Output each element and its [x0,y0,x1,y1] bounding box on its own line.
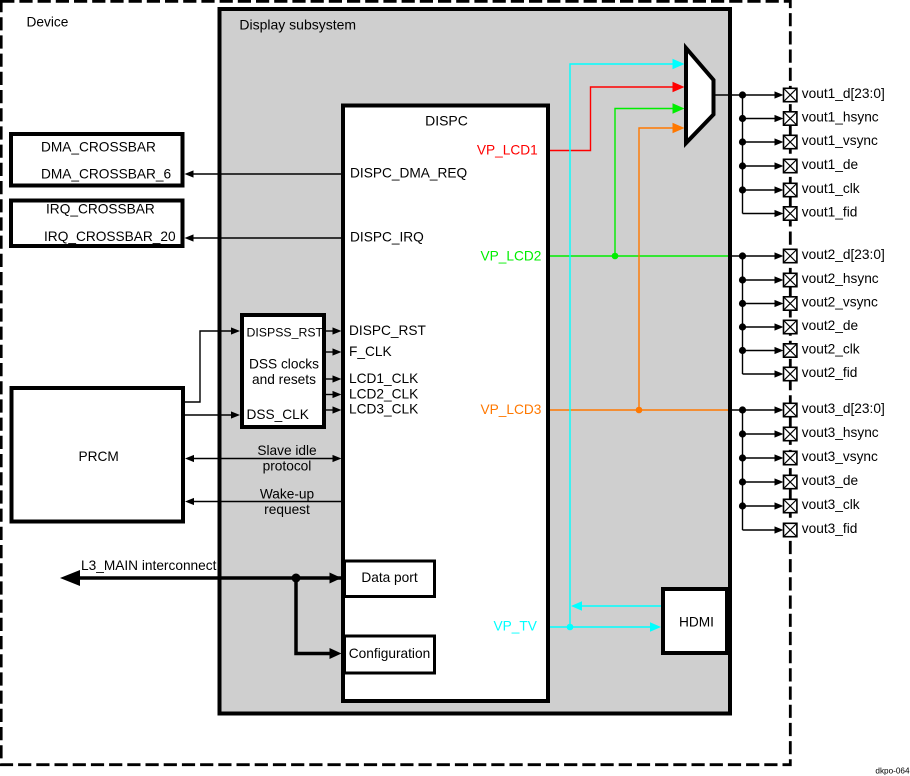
wire vout1_vsync [743,141,776,143]
svg-text:F_CLK: F_CLK [349,344,392,359]
svg-text:vout2_vsync: vout2_vsync [802,295,878,310]
wire L3 to Configuration [296,578,330,654]
mux [686,48,714,143]
svg-text:Configuration: Configuration [349,646,430,661]
svg-text:DMA_CROSSBAR: DMA_CROSSBAR [41,140,156,155]
wire VP_LCD3 orange [550,409,728,411]
svg-text:vout1_d[23:0]: vout1_d[23:0] [802,86,885,101]
wire vout3_fid [743,529,776,531]
svg-text:HDMI: HDMI [679,615,714,630]
display subsystem block [220,9,731,714]
wire vout3_clk [743,505,776,507]
svg-text:vout3_vsync: vout3_vsync [802,449,878,464]
vout3 black stub [731,409,775,411]
pad vout3_fid [784,523,797,536]
svg-text:PRCM: PRCM [79,449,119,464]
block DISPC [343,106,548,702]
pad vout2_de [784,320,797,333]
pad vout1_d[23:0] [784,88,797,101]
block Data port [345,561,435,597]
svg-text:Display subsystem: Display subsystem [239,16,356,32]
wire HDMI output to mux [581,605,661,607]
svg-text:VP_TV: VP_TV [494,618,538,633]
svg-text:LCD2_CLK: LCD2_CLK [349,387,418,402]
vout2 bus vertical [742,256,744,374]
wire slave idle protocol [194,458,333,460]
svg-text:vout3_de: vout3_de [802,473,858,488]
svg-text:LCD1_CLK: LCD1_CLK [349,371,418,386]
wire LCD1_CLK [326,378,333,380]
pad vout3_clk [784,499,797,512]
wire vout3_de [743,481,776,483]
svg-text:Data port: Data port [361,570,417,585]
wire mux output to vout1 [714,94,776,96]
svg-text:DISPC_RST: DISPC_RST [349,323,426,338]
svg-text:LCD3_CLK: LCD3_CLK [349,402,418,417]
wire vout2_clk [743,350,776,352]
pad vout2_clk [784,344,797,357]
vout2 black stub [731,255,775,257]
wire VP_LCD1 red [550,87,674,151]
wire LCD2_CLK [326,394,333,396]
svg-text:vout1_hsync: vout1_hsync [802,110,879,125]
svg-text:vout2_hsync: vout2_hsync [802,271,879,286]
wire DISPC_DMA_REQ to DMA_CROSSBAR [193,173,343,175]
svg-text:DISPC: DISPC [425,113,468,129]
svg-text:vout2_d[23:0]: vout2_d[23:0] [802,247,885,262]
pad vout3_de [784,475,797,488]
wire vout2_hsync [743,279,776,281]
svg-text:DMA_CROSSBAR_6: DMA_CROSSBAR_6 [41,166,171,181]
svg-text:DISPC_IRQ: DISPC_IRQ [350,230,424,245]
svg-text:DSS_CLK: DSS_CLK [247,407,309,422]
wire PRCM to DSS_CLK [185,414,232,416]
wire vout2_fid [743,373,776,375]
pad vout3_d[23:0] [784,403,797,416]
vout3 bus vertical [742,410,744,530]
pad vout3_vsync [784,451,797,464]
svg-text:DISPSS_RST: DISPSS_RST [247,326,324,340]
wire DISPC_IRQ to IRQ_CROSSBAR [193,237,343,239]
svg-text:DSS clocks: DSS clocks [249,356,319,371]
pad vout1_de [784,159,797,172]
wire wake-up request [194,501,343,503]
block DMA_CROSSBAR [11,134,183,186]
svg-text:vout1_de: vout1_de [802,157,858,172]
svg-text:request: request [264,502,310,517]
svg-text:VP_LCD3: VP_LCD3 [481,402,542,417]
svg-text:dkpo-064: dkpo-064 [875,767,910,776]
svg-text:IRQ_CROSSBAR_20: IRQ_CROSSBAR_20 [44,229,176,244]
svg-text:vout1_fid: vout1_fid [802,205,858,220]
svg-text:IRQ_CROSSBAR: IRQ_CROSSBAR [46,202,155,217]
wire vout2_de [743,326,776,328]
svg-text:Slave idle: Slave idle [257,443,316,458]
svg-text:protocol: protocol [263,459,312,474]
wire LCD3_CLK [326,409,333,411]
svg-text:DISPC_DMA_REQ: DISPC_DMA_REQ [350,166,467,181]
pad vout2_hsync [784,273,797,286]
svg-text:vout3_clk: vout3_clk [802,497,860,512]
svg-text:L3_MAIN interconnect: L3_MAIN interconnect [81,558,217,573]
svg-text:vout1_vsync: vout1_vsync [802,133,878,148]
pad vout1_hsync [784,112,797,125]
svg-text:Wake-up: Wake-up [260,487,315,502]
vout1 bus vertical [742,95,744,214]
wire vout1_fid [743,213,776,215]
svg-text:vout3_hsync: vout3_hsync [802,425,879,440]
svg-text:vout3_d[23:0]: vout3_d[23:0] [802,401,885,416]
svg-text:vout2_clk: vout2_clk [802,342,860,357]
wire VP_LCD2 green [550,255,728,257]
junction on L3 line [292,574,301,583]
svg-text:VP_LCD2: VP_LCD2 [481,248,542,263]
svg-text:Device: Device [27,15,69,30]
wire vout3_hsync [743,433,776,435]
pad vout3_hsync [784,427,797,440]
block PRCM [12,388,184,522]
block IRQ_CROSSBAR [11,201,183,247]
block Configuration [345,636,435,673]
pad vout1_clk [784,183,797,196]
wire vout1_clk [743,189,776,191]
svg-text:vout1_clk: vout1_clk [802,181,860,196]
wire PRCM to DISPSS_RST [185,331,232,402]
block DSS clocks and resets [242,315,324,427]
pad vout2_vsync [784,297,797,310]
svg-text:VP_LCD1: VP_LCD1 [477,143,538,158]
block HDMI [663,589,727,653]
wire vout1_de [743,165,776,167]
pad vout1_fid [784,207,797,220]
pad vout2_fid [784,367,797,380]
pad vout2_d[23:0] [784,249,797,262]
svg-text:vout2_de: vout2_de [802,318,858,333]
wire VP_TV cyan [550,626,652,628]
svg-text:vout3_fid: vout3_fid [802,521,858,536]
wire vout1_hsync [743,118,776,120]
svg-text:vout2_fid: vout2_fid [802,365,858,380]
wire vout3_vsync [743,457,776,459]
svg-text:and resets: and resets [252,372,316,387]
wire F_CLK [326,351,333,353]
pad vout1_vsync [784,135,797,148]
wire L3_MAIN interconnect [76,576,343,580]
wire vout2_vsync [743,303,776,305]
wire DISPC_RST [326,330,333,332]
